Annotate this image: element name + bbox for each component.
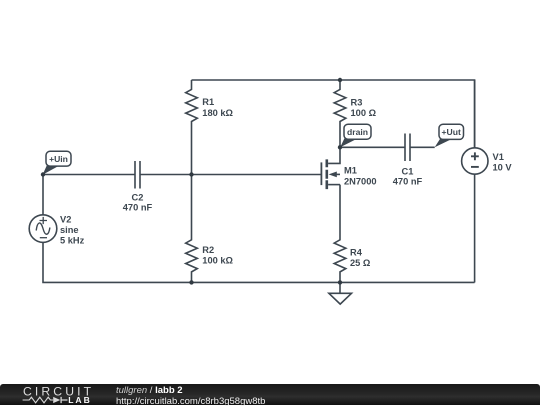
svg-text:R1: R1: [202, 97, 214, 107]
node flag +Uin: [43, 151, 71, 175]
svg-text:2N7000: 2N7000: [344, 176, 377, 186]
svg-text:470 nF: 470 nF: [123, 203, 153, 213]
svg-text:LAB: LAB: [68, 395, 92, 405]
wire input node to C2: [43, 174, 135, 176]
resistor R3: [334, 80, 376, 147]
svg-text:180 kΩ: 180 kΩ: [202, 108, 233, 118]
svg-text:+Uut: +Uut: [442, 127, 461, 137]
svg-text:100 kΩ: 100 kΩ: [202, 255, 233, 265]
wire top rail and right rail upper: [192, 80, 475, 148]
svg-text:V2: V2: [60, 214, 71, 224]
CircuitLab logo: [0, 382, 110, 406]
resistor R2: [186, 175, 234, 283]
resistor R1: [186, 80, 234, 175]
ground: [329, 282, 352, 304]
node flag +Uut: [435, 124, 464, 147]
svg-text:R3: R3: [351, 97, 363, 107]
junction R1 R2 gate: [189, 172, 193, 176]
wire left rail top: [42, 175, 44, 215]
svg-text:C2: C2: [132, 193, 144, 203]
svg-text:+Uin: +Uin: [49, 154, 68, 164]
wire C2 to gate: [140, 174, 321, 176]
svg-text:M1: M1: [344, 165, 357, 175]
capacitor C1: [393, 134, 423, 187]
wire C1 to Uut node: [410, 146, 435, 148]
footer text: [116, 385, 183, 396]
wire drain to C1: [340, 146, 405, 148]
junction input node: [41, 172, 45, 176]
junction drain node: [338, 145, 342, 149]
junction R3 top: [338, 78, 342, 82]
svg-text:V1: V1: [493, 152, 504, 162]
svg-text:R4: R4: [350, 247, 363, 257]
wire left rail bottom and bottom rail: [43, 242, 475, 282]
svg-text:R2: R2: [202, 245, 214, 255]
transistor M1: [321, 147, 376, 189]
svg-text:100 Ω: 100 Ω: [351, 108, 377, 118]
svg-text:C1: C1: [402, 166, 414, 176]
node flag drain: [340, 124, 371, 147]
resistor R4: [334, 185, 371, 283]
footer bar: [0, 384, 540, 405]
svg-text:drain: drain: [347, 127, 368, 137]
junction R4 ground: [338, 280, 342, 284]
svg-text:470 nF: 470 nF: [393, 176, 423, 186]
svg-text:5 kHz: 5 kHz: [60, 235, 85, 245]
svg-text:sine: sine: [60, 225, 79, 235]
capacitor C2: [123, 161, 153, 213]
junction R2 bottom: [189, 280, 193, 284]
svg-text:10 V: 10 V: [493, 162, 513, 172]
svg-text:25 Ω: 25 Ω: [350, 258, 371, 268]
wire right rail top: [474, 80, 476, 148]
wire right rail bottom: [474, 174, 476, 282]
voltage source V1: [462, 148, 513, 174]
voltage source V2: [29, 214, 84, 245]
